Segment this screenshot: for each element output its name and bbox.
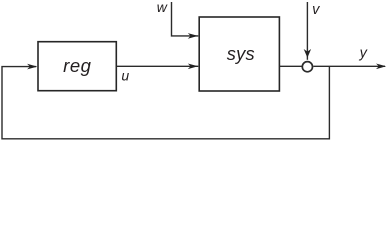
- wire sys output to sum: [279, 65, 301, 67]
- block sys: [199, 17, 279, 91]
- svg-text:v: v: [312, 2, 320, 18]
- arrowhead y output: [376, 64, 386, 70]
- wire v input: [306, 2, 308, 60]
- arrowhead u into sys: [188, 64, 198, 70]
- svg-text:y: y: [359, 46, 368, 62]
- wire y output: [313, 65, 385, 67]
- svg-text:w: w: [157, 0, 168, 15]
- arrowhead feedback into reg: [27, 64, 37, 70]
- wire u (reg to sys): [116, 65, 198, 67]
- svg-text:reg: reg: [63, 55, 91, 76]
- arrowhead w into sys: [188, 33, 198, 39]
- summing junction: [302, 62, 312, 72]
- wire w input: [172, 2, 199, 36]
- svg-text:sys: sys: [227, 43, 255, 64]
- wire feedback loop: [2, 66, 329, 139]
- block reg: [38, 42, 116, 91]
- svg-text:u: u: [121, 67, 129, 83]
- arrowhead v into sum: [304, 49, 311, 58]
